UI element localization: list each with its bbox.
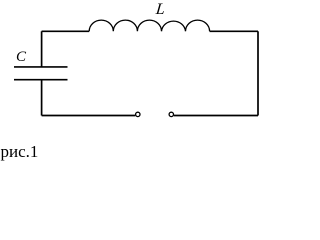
- wire top-right horizontal: [210, 30, 258, 32]
- wire bottom-right segment: [174, 115, 258, 117]
- inductor L1 (5 humps): [89, 20, 209, 31]
- switch terminal left (open circle): [136, 112, 140, 116]
- caption рис.1: [1, 142, 39, 162]
- wire left vertical upper: [41, 31, 43, 67]
- wire right vertical: [257, 31, 259, 115]
- capacitor C1 bottom plate: [14, 79, 68, 81]
- wire bottom-left segment: [42, 115, 136, 117]
- capacitor C1 top plate: [14, 66, 68, 68]
- wire top-left horizontal: [42, 30, 90, 32]
- switch terminal right (open circle): [169, 112, 173, 116]
- wire left vertical lower: [41, 80, 43, 116]
- label C: [16, 49, 26, 66]
- label L: [155, 1, 166, 19]
